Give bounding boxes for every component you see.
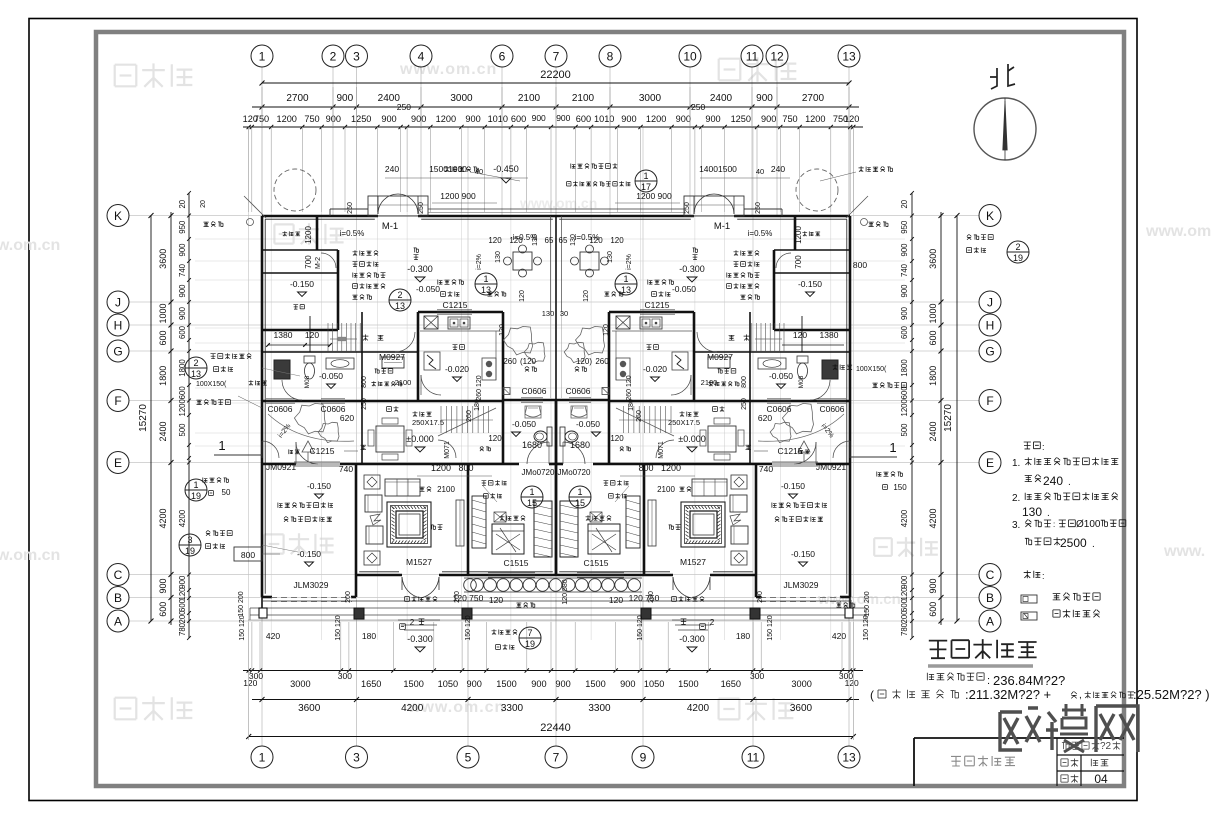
svg-text:40: 40 xyxy=(475,167,483,176)
light watermarks xyxy=(115,65,137,87)
svg-text:JMo0720: JMo0720 xyxy=(558,468,591,477)
svg-text:900: 900 xyxy=(756,93,773,104)
right row bubbles xyxy=(979,205,1001,227)
top extension lines xyxy=(248,127,250,212)
svg-text:4200: 4200 xyxy=(928,508,938,528)
svg-text:15270: 15270 xyxy=(943,404,954,432)
stair treads lower (19 steps) xyxy=(440,406,442,433)
svg-text:950: 950 xyxy=(900,220,909,234)
svg-text:250: 250 xyxy=(684,202,691,214)
svg-text:1: 1 xyxy=(193,480,198,490)
svg-text:M1527: M1527 xyxy=(680,557,706,567)
svg-text:250X17.5: 250X17.5 xyxy=(412,418,444,427)
big watermark mo xyxy=(1046,712,1058,750)
svg-text:3600: 3600 xyxy=(158,249,168,269)
svg-text:3600: 3600 xyxy=(298,703,321,714)
svg-text:600: 600 xyxy=(511,114,526,124)
svg-text:G: G xyxy=(985,344,994,358)
svg-text:800: 800 xyxy=(361,376,368,388)
svg-text:10: 10 xyxy=(683,49,697,63)
svg-text:15001000: 15001000 xyxy=(429,164,467,174)
svg-text:120: 120 xyxy=(844,114,859,124)
svg-text:-0.050: -0.050 xyxy=(672,284,696,294)
svg-text:740: 740 xyxy=(759,464,773,474)
svg-text:120: 120 xyxy=(610,434,624,443)
courtyard C1215 window on E wall xyxy=(294,461,340,463)
big watermark ou xyxy=(1000,712,1022,750)
windows xyxy=(437,309,472,311)
svg-text:900: 900 xyxy=(381,114,396,124)
svg-text:22440: 22440 xyxy=(540,722,571,734)
svg-text:2100: 2100 xyxy=(572,93,595,104)
laundry sink xyxy=(382,357,404,368)
svg-text::211.32M?2? +: :211.32M?2? + xyxy=(965,687,1051,702)
right dimension columns (mirrored) xyxy=(956,216,958,622)
svg-text:2700: 2700 xyxy=(802,93,825,104)
kitchen counters xyxy=(420,330,500,332)
svg-text:600: 600 xyxy=(178,325,187,339)
top axis dimension row xyxy=(252,106,859,108)
svg-text:±0.000: ±0.000 xyxy=(406,434,433,444)
svg-text:K: K xyxy=(986,209,994,223)
svg-text:3300: 3300 xyxy=(588,703,611,714)
svg-text:E: E xyxy=(986,456,994,470)
svg-text:250: 250 xyxy=(418,202,425,214)
svg-text:50: 50 xyxy=(222,488,231,497)
svg-text:620: 620 xyxy=(758,413,772,423)
svg-text:900: 900 xyxy=(676,114,691,124)
svg-text:1010: 1010 xyxy=(488,114,508,124)
svg-text:J: J xyxy=(987,295,993,309)
left detail dimension column xyxy=(188,193,190,638)
plan annotations xyxy=(445,166,450,172)
svg-text:740: 740 xyxy=(339,464,353,474)
svg-text:C0606: C0606 xyxy=(267,404,292,414)
svg-text:240: 240 xyxy=(771,164,785,174)
svg-text:2: 2 xyxy=(1015,242,1020,252)
svg-text:1500: 1500 xyxy=(403,679,423,689)
svg-text:-0.020: -0.020 xyxy=(445,364,469,374)
svg-text:600: 600 xyxy=(576,114,591,124)
svg-text:-0.050: -0.050 xyxy=(576,419,600,429)
sink counter left bath xyxy=(326,358,354,369)
svg-text:65: 65 xyxy=(559,236,568,245)
exterior wall inner faces xyxy=(265,218,375,220)
svg-text:130: 130 xyxy=(542,309,555,318)
svg-text:M08: M08 xyxy=(304,375,311,388)
svg-text:236.84M?2?: 236.84M?2? xyxy=(993,673,1065,688)
svg-text:900: 900 xyxy=(900,575,909,589)
svg-text:700: 700 xyxy=(304,255,313,269)
svg-text:B: B xyxy=(114,591,122,605)
svg-text:13: 13 xyxy=(842,750,856,764)
svg-text:M08: M08 xyxy=(798,375,805,388)
svg-text:1: 1 xyxy=(577,487,582,497)
svg-text:i=2%: i=2% xyxy=(626,254,633,270)
JLM3029 rolling door dashed track xyxy=(271,597,352,599)
svg-text:30: 30 xyxy=(560,309,568,318)
stair cut diagonal xyxy=(438,408,496,436)
title shouceng pingmiantu xyxy=(929,641,947,659)
porch steps at entries xyxy=(398,619,440,621)
svg-text:120: 120 xyxy=(583,290,590,302)
svg-text:250X17.5: 250X17.5 xyxy=(668,418,700,427)
svg-text:±0.000: ±0.000 xyxy=(678,434,705,444)
svg-text::: : xyxy=(1042,571,1045,581)
bottom extension lines xyxy=(248,622,250,671)
margin leaders xyxy=(262,368,300,376)
interior walls xyxy=(316,216,319,250)
svg-text:120: 120 xyxy=(488,236,502,245)
svg-text:-0.150: -0.150 xyxy=(297,549,321,559)
entry door M-1 left xyxy=(378,194,398,214)
svg-text:-0.050: -0.050 xyxy=(319,371,343,381)
svg-text:-0.300: -0.300 xyxy=(407,634,433,644)
svg-text:120: 120 xyxy=(509,236,523,245)
corner roof diagonals xyxy=(244,196,266,218)
area text line1 xyxy=(927,673,934,681)
svg-text:900: 900 xyxy=(178,306,187,320)
svg-text:150 120: 150 120 xyxy=(335,615,342,640)
washer left bath xyxy=(274,360,290,379)
svg-text:1200: 1200 xyxy=(646,114,666,124)
svg-text:-0.300: -0.300 xyxy=(679,634,705,644)
svg-text:780: 780 xyxy=(178,622,187,636)
svg-text:100X150(: 100X150( xyxy=(856,366,887,373)
svg-text:1800: 1800 xyxy=(928,366,938,386)
svg-text:4200: 4200 xyxy=(900,509,909,527)
svg-text:120: 120 xyxy=(305,330,319,340)
svg-text:www.om.cn: www.om.cn xyxy=(817,591,901,608)
svg-text:1500: 1500 xyxy=(678,679,698,689)
svg-text:E: E xyxy=(114,456,122,470)
svg-text:500: 500 xyxy=(178,423,187,437)
svg-text:www.om.cn: www.om.cn xyxy=(0,237,60,254)
svg-text:750: 750 xyxy=(782,114,797,124)
svg-text:1000: 1000 xyxy=(928,303,938,323)
svg-text:?2: ?2 xyxy=(1100,741,1112,752)
svg-text:600: 600 xyxy=(158,330,168,345)
left axis dimension column xyxy=(170,212,172,625)
svg-text:130: 130 xyxy=(495,251,502,263)
bath1 fixtures (center pair) xyxy=(525,406,541,418)
svg-text:(120: (120 xyxy=(520,357,537,366)
svg-text:240: 240 xyxy=(1043,474,1063,488)
svg-text:200: 200 xyxy=(648,591,655,603)
porch columns xyxy=(354,608,364,619)
svg-text:22200: 22200 xyxy=(540,69,571,81)
biogas pit dashed circle left xyxy=(274,169,316,211)
svg-text:4200: 4200 xyxy=(687,703,710,714)
svg-text:120: 120 xyxy=(900,587,909,601)
svg-text:2.: 2. xyxy=(1012,493,1020,504)
svg-text:950: 950 xyxy=(178,220,187,234)
svg-text:180: 180 xyxy=(736,631,750,641)
svg-text:200: 200 xyxy=(454,591,461,603)
svg-text:13: 13 xyxy=(395,301,405,311)
svg-text:1010: 1010 xyxy=(594,114,614,124)
svg-text:900: 900 xyxy=(705,114,720,124)
svg-text:20: 20 xyxy=(178,199,187,208)
svg-text:1650: 1650 xyxy=(361,679,381,689)
svg-text:900: 900 xyxy=(178,284,187,298)
end posts xyxy=(259,608,267,618)
svg-text:M071: M071 xyxy=(444,441,451,459)
svg-text:C: C xyxy=(986,568,995,582)
svg-text:600: 600 xyxy=(928,330,938,345)
svg-text:150 120: 150 120 xyxy=(767,615,774,640)
svg-text:130: 130 xyxy=(532,234,539,246)
svg-text:2400: 2400 xyxy=(158,421,168,441)
svg-text:1800: 1800 xyxy=(158,366,168,386)
svg-text:1200: 1200 xyxy=(900,398,909,416)
svg-text:800: 800 xyxy=(638,463,653,473)
svg-text:JM0921: JM0921 xyxy=(266,462,297,472)
svg-text:-0.150: -0.150 xyxy=(791,549,815,559)
svg-text:www.om: www.om xyxy=(1145,223,1211,240)
svg-text:-0.300: -0.300 xyxy=(679,264,705,274)
svg-text::: : xyxy=(987,675,990,687)
svg-text:600: 600 xyxy=(900,598,909,612)
svg-text:900: 900 xyxy=(531,679,546,689)
svg-text:620: 620 xyxy=(340,413,354,423)
svg-text:3000: 3000 xyxy=(639,93,662,104)
svg-text::: : xyxy=(1053,520,1055,529)
svg-text:C1215: C1215 xyxy=(309,446,334,456)
svg-text:600: 600 xyxy=(158,602,168,617)
svg-text:600: 600 xyxy=(178,598,187,612)
svg-text:900: 900 xyxy=(467,679,482,689)
svg-text:JLM3029: JLM3029 xyxy=(294,580,329,590)
svg-text:65: 65 xyxy=(545,236,554,245)
svg-text:M-1: M-1 xyxy=(382,221,398,232)
svg-text:180: 180 xyxy=(362,631,376,641)
svg-text:M-2: M-2 xyxy=(315,257,322,269)
title block: drawing name xyxy=(951,756,961,766)
svg-text:300: 300 xyxy=(338,671,352,681)
svg-text:200: 200 xyxy=(900,610,909,624)
title block: project cell xyxy=(1062,742,1069,749)
horizontal axis lines xyxy=(129,215,979,217)
svg-text:15: 15 xyxy=(527,498,537,508)
north arrow xyxy=(974,98,1036,160)
svg-text:C1215: C1215 xyxy=(442,300,467,310)
svg-text:M071: M071 xyxy=(658,441,665,459)
svg-text:-0.150: -0.150 xyxy=(290,279,314,289)
svg-text:H: H xyxy=(114,318,123,332)
svg-text:150 200: 150 200 xyxy=(864,591,871,616)
svg-text:C1515: C1515 xyxy=(503,558,528,568)
svg-text:900: 900 xyxy=(411,114,426,124)
flower planter row xyxy=(471,579,484,592)
svg-text:1200: 1200 xyxy=(178,398,187,416)
svg-text:1680: 1680 xyxy=(522,440,542,450)
svg-text:3: 3 xyxy=(353,750,360,764)
svg-text:1680: 1680 xyxy=(570,440,590,450)
downpipes xyxy=(247,219,254,226)
svg-text:-0.150: -0.150 xyxy=(781,481,805,491)
svg-text:120: 120 xyxy=(589,236,603,245)
svg-text:200: 200 xyxy=(345,591,352,603)
svg-text:-0.150: -0.150 xyxy=(798,279,822,289)
svg-text:1: 1 xyxy=(643,171,648,181)
svg-text:M1527: M1527 xyxy=(406,557,432,567)
toilet left bath xyxy=(304,356,315,363)
svg-text:900: 900 xyxy=(178,575,187,589)
svg-text:120: 120 xyxy=(845,678,859,688)
svg-text:420: 420 xyxy=(266,631,280,641)
svg-text:1050: 1050 xyxy=(438,679,458,689)
entry porch canopy left xyxy=(368,196,428,216)
svg-text:1500: 1500 xyxy=(585,679,605,689)
svg-text:1: 1 xyxy=(259,49,266,63)
svg-text:130: 130 xyxy=(570,234,577,246)
vertical axis lines xyxy=(261,67,263,215)
svg-text:100X150(: 100X150( xyxy=(196,381,227,388)
svg-text:250: 250 xyxy=(741,398,748,410)
svg-text:120: 120 xyxy=(499,324,506,336)
svg-text:260: 260 xyxy=(466,410,473,422)
svg-text:2100: 2100 xyxy=(518,93,541,104)
svg-text:8: 8 xyxy=(607,49,614,63)
svg-text:900: 900 xyxy=(556,113,570,123)
svg-text:2100: 2100 xyxy=(437,485,455,494)
legend xyxy=(1024,570,1031,578)
svg-text:A: A xyxy=(986,614,994,628)
svg-text:200: 200 xyxy=(757,591,764,603)
svg-text:2: 2 xyxy=(397,290,402,300)
svg-text:780: 780 xyxy=(900,622,909,636)
svg-text:4200: 4200 xyxy=(158,508,168,528)
svg-text:.: . xyxy=(1047,508,1050,519)
living room rug xyxy=(387,502,431,547)
svg-text:12: 12 xyxy=(770,49,784,63)
wardrobes xyxy=(534,501,552,557)
bottom detail dimension row xyxy=(243,670,863,672)
svg-text:1: 1 xyxy=(889,440,896,455)
svg-text:7: 7 xyxy=(553,49,560,63)
svg-text:120: 120 xyxy=(489,595,503,605)
svg-text:300: 300 xyxy=(249,671,263,681)
svg-text:3600: 3600 xyxy=(790,703,813,714)
svg-text:1250: 1250 xyxy=(351,114,371,124)
svg-text:900: 900 xyxy=(158,578,168,593)
svg-text::: : xyxy=(1042,442,1045,452)
svg-text:19: 19 xyxy=(185,546,195,556)
svg-text:C1515: C1515 xyxy=(583,558,608,568)
svg-text:2: 2 xyxy=(710,618,715,627)
top overall dimension 22200 xyxy=(262,82,849,84)
water heater symbol xyxy=(424,352,440,370)
svg-text:G: G xyxy=(113,344,122,358)
svg-text:M0927: M0927 xyxy=(379,352,405,362)
svg-text:2: 2 xyxy=(330,49,337,63)
notes fuzhu xyxy=(1024,442,1031,449)
svg-text:-0.050: -0.050 xyxy=(769,371,793,381)
svg-text:900: 900 xyxy=(336,93,353,104)
svg-text:C0606: C0606 xyxy=(565,386,590,396)
svg-text:900: 900 xyxy=(928,578,938,593)
svg-text:4: 4 xyxy=(418,49,425,63)
svg-text:900: 900 xyxy=(900,284,909,298)
svg-text:A: A xyxy=(114,614,122,628)
svg-text:1200: 1200 xyxy=(304,226,313,244)
svg-text:2500: 2500 xyxy=(1060,536,1087,550)
yard fence lines xyxy=(428,208,686,210)
svg-text:1800: 1800 xyxy=(900,359,909,377)
svg-text:-0.450: -0.450 xyxy=(493,164,519,174)
left overall dimension 15270 xyxy=(150,216,152,622)
outer walls xyxy=(262,215,378,218)
svg-text:4200: 4200 xyxy=(178,509,187,527)
svg-text:11: 11 xyxy=(747,750,760,764)
sofa xyxy=(385,479,420,496)
svg-text:i=0.5%: i=0.5% xyxy=(340,229,365,238)
svg-text:600: 600 xyxy=(178,386,187,400)
svg-text:(: ( xyxy=(870,688,874,702)
svg-text:40: 40 xyxy=(756,167,764,176)
svg-text:F: F xyxy=(986,394,993,408)
svg-text:13: 13 xyxy=(842,49,856,63)
svg-text:-0.020: -0.020 xyxy=(643,364,667,374)
svg-text:120: 120 xyxy=(178,587,187,601)
top detail dimension row xyxy=(243,126,863,128)
courtyard door on exterior wall xyxy=(262,441,279,458)
drawing frame xyxy=(96,32,1124,786)
svg-text:1200: 1200 xyxy=(794,226,803,244)
svg-text:120: 120 xyxy=(609,595,623,605)
bottom axis dimension row xyxy=(252,699,859,701)
svg-text:C0606: C0606 xyxy=(521,386,546,396)
svg-text:120: 120 xyxy=(519,290,526,302)
left row bubbles xyxy=(107,205,129,227)
svg-text:15270: 15270 xyxy=(138,404,149,432)
svg-text:150 120: 150 120 xyxy=(863,615,870,640)
bottom grid bubbles xyxy=(251,746,273,768)
svg-text:7: 7 xyxy=(553,750,560,764)
svg-text:900: 900 xyxy=(900,243,909,257)
svg-text:260: 260 xyxy=(503,357,517,366)
svg-text:3.: 3. xyxy=(1012,520,1020,531)
kitchen door M0821 xyxy=(421,375,441,395)
svg-text:M-1: M-1 xyxy=(714,221,730,232)
svg-text:1380: 1380 xyxy=(820,330,839,340)
svg-text:3000: 3000 xyxy=(791,679,811,689)
svg-text:20: 20 xyxy=(200,200,207,208)
entry door M-1 right xyxy=(694,194,714,214)
svg-text:C: C xyxy=(114,568,123,582)
svg-text:.: . xyxy=(1092,539,1095,550)
big watermark wang xyxy=(1096,706,1138,752)
restaurant table xyxy=(376,426,404,452)
courtyard garden curve xyxy=(268,414,354,441)
svg-text:2400: 2400 xyxy=(710,93,733,104)
svg-text:800: 800 xyxy=(853,260,867,270)
yard trees xyxy=(504,326,533,355)
svg-text:2: 2 xyxy=(410,618,415,627)
svg-text:C1215: C1215 xyxy=(644,300,669,310)
svg-text:150: 150 xyxy=(893,483,907,492)
svg-text:3: 3 xyxy=(353,49,360,63)
beds xyxy=(492,524,524,554)
svg-text:260: 260 xyxy=(636,410,643,422)
svg-text:2100: 2100 xyxy=(395,378,412,387)
svg-text:120: 120 xyxy=(488,434,502,443)
svg-text:J: J xyxy=(115,295,121,309)
svg-text:130: 130 xyxy=(607,251,614,263)
svg-text:500: 500 xyxy=(900,423,909,437)
M-2 door xyxy=(321,253,336,268)
